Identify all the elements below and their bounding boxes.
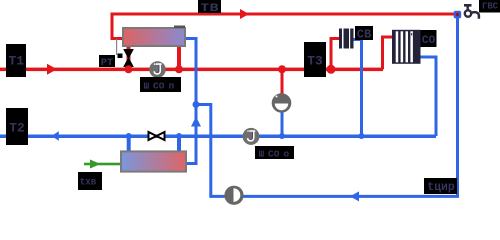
svg-text:Т3: Т3 <box>307 54 323 68</box>
wire: cold water arrow <box>90 160 101 169</box>
wire: T1 supply main (red, y=69) <box>0 68 383 72</box>
radiator CO (heating system) <box>392 30 421 64</box>
manual valve on T2 (horizontal bowtie) <box>149 132 157 140</box>
svg-text:СВ: СВ <box>357 28 372 41</box>
junction node: T2/CB return <box>359 133 365 139</box>
wire: top HX left stub (valve stub) <box>127 46 131 70</box>
wire: DHW riser up arrow <box>191 117 201 127</box>
junction node: DHW riser / circulation <box>193 101 200 108</box>
svg-text:tхв: tхв <box>80 177 97 188</box>
heat exchanger HX1 (top, DHW stage 2) <box>123 28 185 46</box>
wire: impulse line from RT to valve (thin gray) <box>116 39 117 55</box>
heat exchanger HX2 (bottom, DHW stage 1) <box>121 151 186 171</box>
wire: circulation flow arrow (left) <box>350 191 359 201</box>
wire: T1 flow arrow <box>47 64 57 75</box>
junction node: T1/valve stub <box>125 65 133 73</box>
pump U4 (circulation pump) <box>224 186 243 205</box>
control valve RT (vertical bowtie) <box>124 50 133 67</box>
svg-text:тв: тв <box>200 0 219 16</box>
wire: hot stub from top HX (red, x=282 upper part of mixing branch) <box>281 69 284 94</box>
label RT <box>99 55 115 69</box>
junction node: T2/bottom HX left stub <box>126 133 132 139</box>
label tcir <box>424 178 457 194</box>
wire: top HX right stub <box>177 46 181 70</box>
pump U3 (mixing pump) <box>272 93 292 113</box>
label T1 <box>6 44 26 77</box>
label tv <box>198 0 221 16</box>
wire: riser to CO radiator <box>383 37 395 69</box>
wire: bottom HX left stub <box>127 136 131 153</box>
label Sh SO p <box>140 77 181 92</box>
radiator CB (ventilation heater) <box>339 29 354 49</box>
label CB <box>355 26 373 41</box>
wire: riser to CB radiator <box>331 39 339 70</box>
wire: circulation line (node - right - down - bottom - up to GVS node) <box>196 14 458 196</box>
HX1 top-right notch <box>174 26 185 29</box>
svg-text:РТ: РТ <box>101 58 114 69</box>
svg-text:tцир: tцир <box>427 181 455 194</box>
junction node: T3 tap <box>327 65 336 74</box>
junction node: T2/mixing branch <box>279 133 285 139</box>
wire: cold water inlet (green) <box>84 163 121 166</box>
wire: bottom HX right stub <box>177 136 181 153</box>
label thv <box>78 172 102 190</box>
control valve RT actuator <box>118 54 123 59</box>
wire: CO radiator return <box>420 57 436 136</box>
label CO <box>421 30 437 47</box>
svg-text:Т1: Т1 <box>9 55 25 69</box>
label T2 <box>6 108 28 145</box>
wire: DHW hot outlet (tv line) from top HX to GVS node <box>112 14 456 39</box>
pump U2 (Sh SO o) on T2 <box>243 128 260 145</box>
pump U1 (Sh SO p) on T1 <box>149 61 166 78</box>
wire: CB radiator return <box>353 40 362 137</box>
junction node: T2/bottom HX right stub <box>176 133 182 139</box>
label Sh SO o <box>255 146 294 159</box>
wire: DHW riser from bottom HX to top HX (x=196) <box>185 39 196 164</box>
junction node: T1/mixing branch <box>278 65 286 73</box>
wire: T2 return main (blue, y=135.5) <box>0 135 436 139</box>
wire: T2 flow arrow (left) <box>52 131 59 141</box>
svg-text:ШСОо: ШСОо <box>259 148 290 159</box>
node: GVS junction <box>454 11 462 19</box>
junction node: T1/HX right stub <box>175 65 183 73</box>
wire: mixing branch lower part (blue) <box>281 112 284 136</box>
label T3 <box>304 42 326 77</box>
svg-text:Т2: Т2 <box>9 121 25 135</box>
wire: tv flow arrow <box>240 9 249 19</box>
svg-text:ШСОп: ШСОп <box>144 80 175 91</box>
faucet (GVS tap) <box>464 5 479 19</box>
svg-text:СО: СО <box>422 35 436 47</box>
label GVS <box>479 0 500 13</box>
svg-text:ГВС: ГВС <box>482 2 499 12</box>
